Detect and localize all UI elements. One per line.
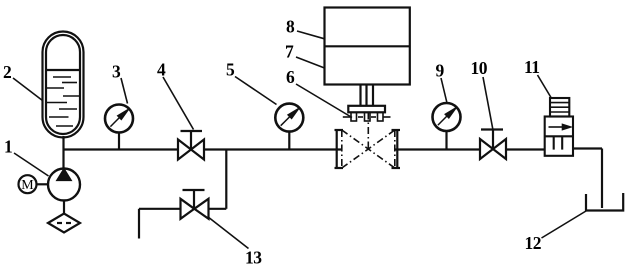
svg-text:3: 3 [112,62,121,82]
svg-text:7: 7 [285,42,294,62]
svg-text:9: 9 [436,61,445,81]
svg-text:13: 13 [245,248,262,268]
svg-text:1: 1 [4,137,12,157]
svg-text:6: 6 [286,67,295,87]
svg-text:2: 2 [3,62,11,82]
svg-text:M: M [21,178,34,193]
svg-text:10: 10 [471,58,488,78]
svg-text:11: 11 [524,57,540,77]
svg-text:4: 4 [157,60,166,80]
svg-text:12: 12 [525,233,542,253]
svg-text:5: 5 [226,60,235,80]
svg-text:8: 8 [286,17,295,37]
